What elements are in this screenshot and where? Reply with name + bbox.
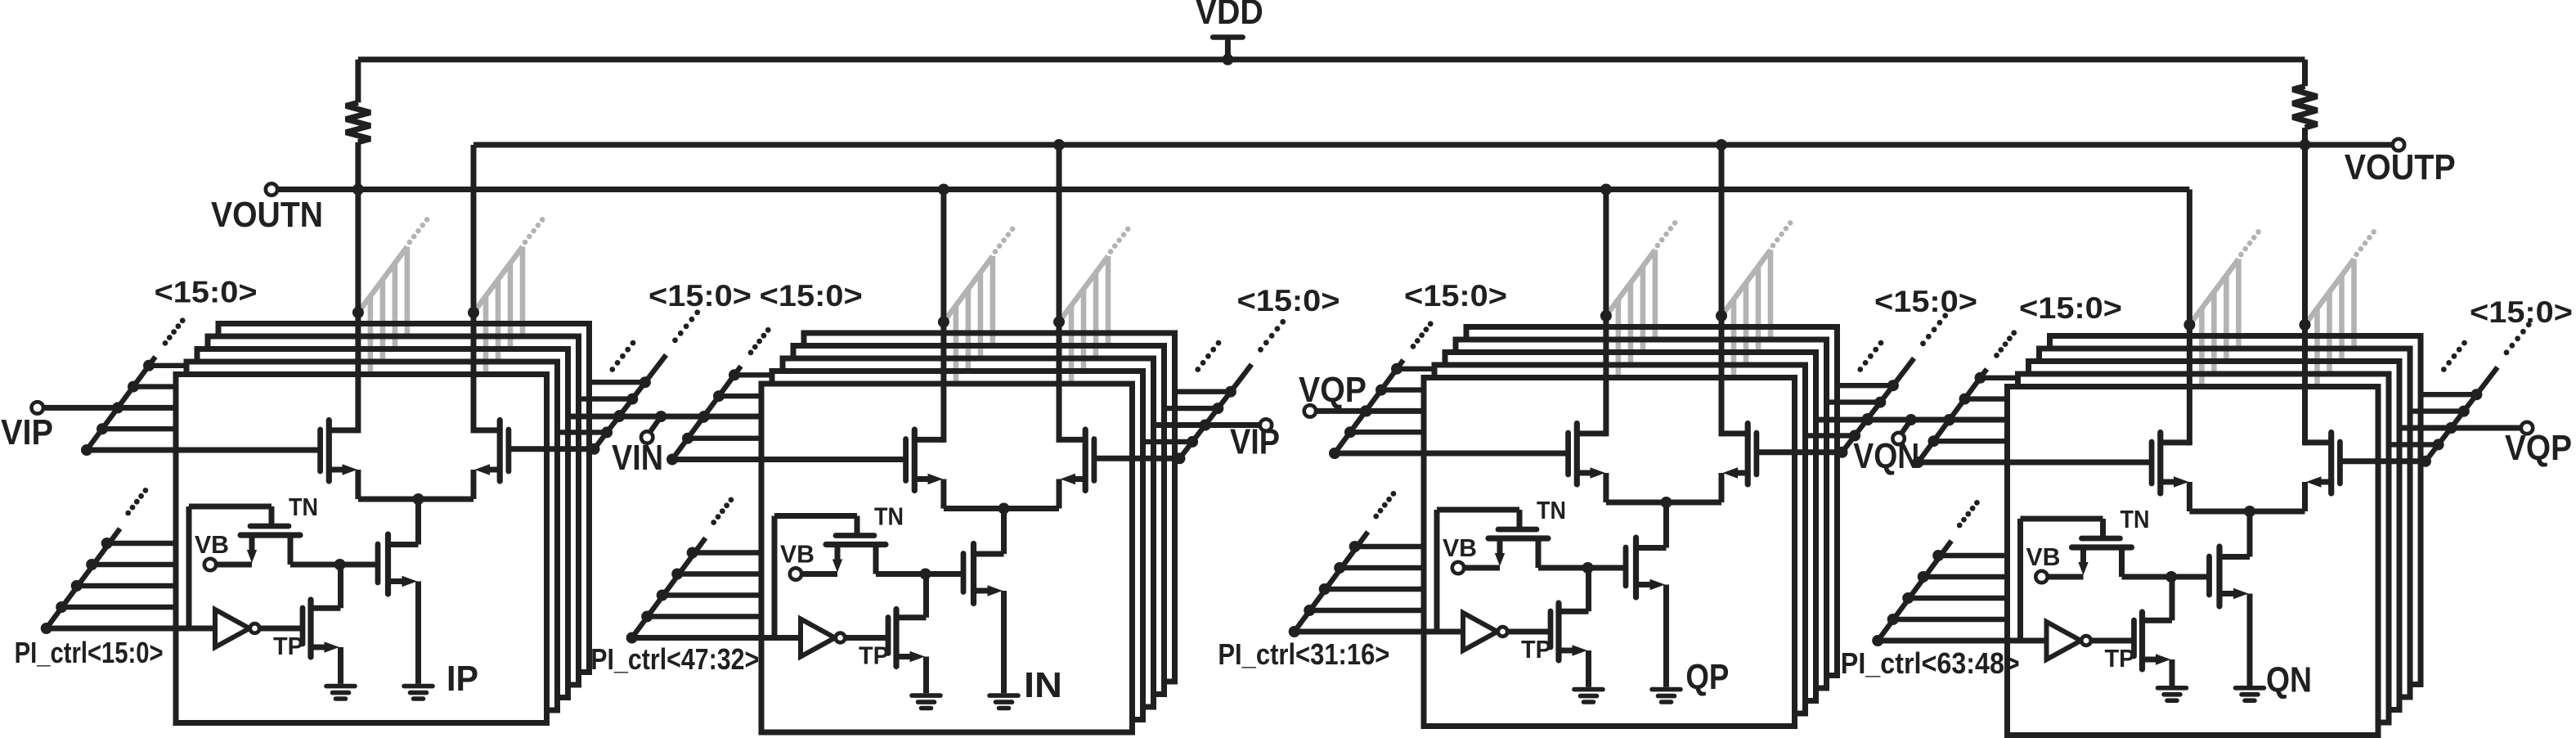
wire bias node [QN] <box>2122 574 2210 580</box>
svg-text:<15:0>: <15:0> <box>760 279 863 313</box>
transistor M1 (diff pair left) [QN] <box>2152 433 2189 512</box>
terminal VB [QN] <box>2035 571 2047 583</box>
terminal VOUTP <box>2393 139 2404 151</box>
label VB [QN] <box>2026 542 2061 571</box>
wire common source [QP] <box>1606 500 1721 506</box>
node slice-bus right QN <box>2300 319 2311 331</box>
input bus diagonal left of IP <box>81 317 186 456</box>
node slice-bus left IN <box>938 317 949 328</box>
label TN [QN] <box>2120 505 2150 533</box>
node VOUTN-R1 <box>352 184 364 196</box>
terminal VIP2 <box>1260 419 1272 430</box>
wire right gate line [QN] <box>2340 458 2426 464</box>
wire VIN stub <box>649 416 662 434</box>
node VQN-stub <box>1905 414 1917 425</box>
label VQP2 <box>2505 428 2572 468</box>
cell IP box top edges <box>176 324 592 375</box>
transistor TP [QN] <box>2134 577 2173 686</box>
transistor M2 (diff pair right) [QP] <box>1721 424 1757 503</box>
node VOUTP-IN <box>1053 139 1065 151</box>
label VOUTP <box>2345 147 2456 187</box>
cell QN slice stack (16 slices) <box>2008 336 2421 736</box>
label PI_ctrl<47:32> <box>590 642 759 676</box>
svg-text:VB: VB <box>2026 542 2061 571</box>
ellipsis dots (more slices) IP <box>609 340 635 372</box>
transistor M3 (tail current) [IN] <box>963 544 1004 694</box>
bus to slices (left drain) of IN <box>944 227 1015 384</box>
transistor TN [QP] <box>1437 510 1548 632</box>
bus to slices (left drain) of QN <box>2189 229 2261 386</box>
PI_ctrl bus diagonal of IP <box>41 488 176 634</box>
wire VB [QN] <box>2048 574 2084 580</box>
transistor TN [IN] <box>774 516 886 638</box>
node VQN-a <box>1862 414 1874 425</box>
svg-text:<15:0>: <15:0> <box>2470 295 2573 329</box>
input bus diagonal right of QP <box>1806 313 1949 457</box>
label bus left IP <box>155 275 258 308</box>
label PI_ctrl<63:48> <box>1841 646 2020 680</box>
svg-text:VB: VB <box>195 530 229 559</box>
svg-text:TP: TP <box>273 632 303 660</box>
transistor M1 (diff pair left) [IP] <box>321 421 358 500</box>
bus to slices (right drain) of QN <box>2305 229 2377 386</box>
svg-text:QN: QN <box>2266 660 2312 700</box>
ellipsis dots (more slices) QP <box>1857 340 1883 372</box>
wire bias node [IP] <box>290 562 378 568</box>
label IP [IP] <box>447 659 478 699</box>
transistor M3 (tail current) [IP] <box>378 534 419 684</box>
label TP [QP] <box>1521 635 1551 664</box>
input bus diagonal right of IP <box>558 309 701 454</box>
node common source [QN] <box>2244 506 2255 517</box>
label TN [IP] <box>289 493 318 521</box>
cell IN box top edges <box>761 333 1178 384</box>
ground TP [QP] <box>1574 690 1603 702</box>
node VIN-stub <box>655 411 666 422</box>
label VB [IN] <box>780 540 815 569</box>
PI_ctrl bus diagonal of QP <box>1289 491 1424 637</box>
input bus diagonal left of QN <box>1913 330 2018 468</box>
wire VQN <box>1816 417 2008 423</box>
wire common source [IP] <box>358 497 473 502</box>
node common source [QP] <box>1661 497 1672 508</box>
transistor M1 (diff pair left) [IN] <box>906 430 944 509</box>
input bus diagonal left of IN <box>666 327 772 466</box>
label VIP2 <box>1230 422 1280 462</box>
svg-text:PI_ctrl<15:0>: PI_ctrl<15:0> <box>15 636 164 669</box>
label TP [IP] <box>273 632 303 660</box>
ground tail [QN] <box>2236 688 2264 700</box>
label IN [IN] <box>1024 665 1062 705</box>
wire tail drain [QN] <box>2219 511 2250 557</box>
terminal VIP <box>32 402 43 413</box>
ground TP [IN] <box>912 695 940 708</box>
wire left gate line [IN] <box>672 457 906 462</box>
svg-text:IP: IP <box>447 659 478 699</box>
wire drain QP right <box>1719 145 1725 436</box>
node common source [IP] <box>413 493 424 505</box>
node slice-bus right IP <box>468 307 479 318</box>
wire VQN stub <box>1901 420 1911 435</box>
svg-text:<15:0>: <15:0> <box>1404 279 1507 313</box>
bus to slices (left drain) of QP <box>1606 220 1678 377</box>
inverter U1 [QN] <box>1878 622 2134 659</box>
label VB [QP] <box>1443 533 1477 562</box>
node slice-bus left QN <box>2183 319 2195 331</box>
label QP [QP] <box>1685 657 1729 697</box>
node VDD <box>1222 54 1233 65</box>
wire drain IP right <box>471 145 477 433</box>
ellipsis dots (more slices) QN <box>2441 340 2467 372</box>
svg-text:VOUTP: VOUTP <box>2345 147 2456 187</box>
node slice-bus right IN <box>1053 317 1065 328</box>
power VDD symbol <box>1213 38 1243 60</box>
label VIP <box>1 412 53 452</box>
label VOUTN <box>211 195 323 235</box>
node common source [IN] <box>999 503 1010 515</box>
wire drain QN right / R2 column <box>2302 60 2308 446</box>
inverter U1 [IN] <box>632 619 888 657</box>
node bias [QN] <box>2165 571 2177 583</box>
terminal VQP2 <box>2521 422 2533 434</box>
terminal VOUTN <box>266 183 277 195</box>
node bias [QP] <box>1582 562 1594 574</box>
svg-text:VIN: VIN <box>612 438 663 478</box>
terminal VB [QP] <box>1452 562 1464 574</box>
ground tail [IP] <box>404 686 433 699</box>
bus to slices (left drain) of IP <box>358 217 429 374</box>
ground tail [IN] <box>990 695 1018 708</box>
terminal VQN <box>1892 433 1904 444</box>
cell QN box top edges <box>2008 336 2424 387</box>
wire VIP <box>43 405 176 411</box>
wire left gate line [QN] <box>1919 460 2152 466</box>
transistor M2 (diff pair right) [QN] <box>2305 433 2340 512</box>
label PI_ctrl<31:16> <box>1218 637 1389 671</box>
wire VOUTP rail <box>473 142 2393 148</box>
node VIN-a <box>613 411 625 422</box>
ground tail [QP] <box>1652 690 1681 702</box>
svg-text:<15:0>: <15:0> <box>1237 284 1340 317</box>
bus to slices (right drain) of IP <box>473 217 545 374</box>
wire drain QP left <box>1603 190 1609 437</box>
label TN [QP] <box>1537 496 1566 524</box>
cell IP slice stack (16 slices) <box>176 324 590 723</box>
transistor TN [QN] <box>2021 519 2132 641</box>
wire common source [IN] <box>944 506 1059 511</box>
label VQP <box>1299 370 1367 410</box>
svg-text:TP: TP <box>2105 644 2135 673</box>
transistor M3 (tail current) [QP] <box>1626 538 1667 687</box>
input bus diagonal left of QP <box>1329 321 1434 459</box>
transistor M3 (tail current) [QN] <box>2210 547 2251 686</box>
node slice-bus right QP <box>1716 310 1727 322</box>
svg-text:VIP: VIP <box>1 412 53 452</box>
svg-text:VB: VB <box>780 540 815 569</box>
node VQP <box>1361 405 1372 416</box>
svg-text:TN: TN <box>289 493 318 521</box>
node VOUTN-QP <box>1600 184 1612 196</box>
svg-text:TN: TN <box>1537 496 1566 524</box>
node VOUTP-R2 <box>2300 139 2311 151</box>
PI_ctrl bus diagonal of IN <box>626 497 761 644</box>
inverter U1 [IP] <box>47 610 303 647</box>
cell QP slice stack (16 slices) <box>1424 327 1838 727</box>
transistor M2 (diff pair right) [IP] <box>473 421 509 500</box>
wire VQP <box>1316 408 1424 414</box>
label VQN <box>1853 436 1919 476</box>
svg-text:VQP: VQP <box>1299 370 1367 410</box>
node slice-bus left QP <box>1600 310 1612 322</box>
wire bias node [IN] <box>876 571 963 577</box>
svg-text:VQN: VQN <box>1853 436 1919 476</box>
terminal VB [IP] <box>204 559 216 570</box>
label bus right IP <box>648 279 752 313</box>
wire VB [IN] <box>801 571 837 577</box>
node VIP2 <box>1200 420 1211 431</box>
svg-text:<15:0>: <15:0> <box>1874 285 1977 318</box>
bus to slices (right drain) of IN <box>1059 227 1130 384</box>
wire left gate line [IP] <box>87 448 321 453</box>
node VOUTP-QP <box>1716 139 1727 151</box>
label VIN <box>612 438 663 478</box>
terminal VIN <box>641 431 653 443</box>
svg-text:TN: TN <box>2120 505 2150 533</box>
wire drain IP left / R1 column <box>355 60 361 434</box>
label QN [QN] <box>2266 660 2312 700</box>
node VOUTN-IN <box>938 184 949 196</box>
wire right gate line [IP] <box>509 446 595 452</box>
node bias [IP] <box>334 559 346 570</box>
svg-text:TN: TN <box>874 502 904 531</box>
terminal VB [IN] <box>790 568 801 579</box>
wire drain QN left <box>2187 190 2192 446</box>
label bus right QP <box>1874 285 1977 318</box>
wire bias node [QP] <box>1538 565 1626 571</box>
inverter U1 [QP] <box>1295 613 1551 650</box>
wire tail drain [IP] <box>388 499 419 545</box>
svg-text:<15:0>: <15:0> <box>2019 291 2122 325</box>
wire common source [QN] <box>2189 509 2304 515</box>
wire VB [IP] <box>216 562 252 568</box>
svg-text:VDD: VDD <box>1196 0 1263 32</box>
wire VIN <box>568 414 762 420</box>
wire right gate line [QP] <box>1757 449 1842 455</box>
label TP [QN] <box>2105 644 2135 673</box>
svg-text:VQP: VQP <box>2505 428 2572 468</box>
cell QP box top edges <box>1424 327 1840 378</box>
svg-text:VB: VB <box>1443 533 1477 562</box>
label bus left QN <box>2019 291 2122 325</box>
label PI_ctrl<15:0> <box>15 636 164 669</box>
svg-text:QP: QP <box>1685 657 1729 697</box>
wire left gate line [QP] <box>1335 451 1568 457</box>
svg-text:PI_ctrl<47:32>: PI_ctrl<47:32> <box>590 642 759 676</box>
resistor R2 <box>2293 86 2318 128</box>
label VB [IP] <box>195 530 229 559</box>
svg-text:TP: TP <box>859 641 889 670</box>
wire VIP2 <box>1154 422 1261 428</box>
label bus left QP <box>1404 279 1507 313</box>
wire tail drain [QP] <box>1636 502 1667 548</box>
wire drain IN right <box>1057 145 1062 443</box>
node VQN-b <box>1944 414 1955 425</box>
node VQP2 <box>2446 422 2457 434</box>
svg-text:VOUTN: VOUTN <box>211 195 323 235</box>
terminal VQP <box>1304 405 1316 416</box>
transistor TP [QP] <box>1551 568 1589 687</box>
wire right gate line [IN] <box>1094 456 1180 461</box>
transistor TP [IP] <box>303 565 341 684</box>
bus to slices (right drain) of QP <box>1721 220 1793 377</box>
transistor M2 (diff pair right) [IN] <box>1059 430 1094 509</box>
wire VB [QP] <box>1464 565 1500 571</box>
wire VDD rail <box>358 56 2305 62</box>
label VDD <box>1196 0 1263 32</box>
label bus right QN <box>2470 295 2573 329</box>
wire drain IN left <box>940 190 946 443</box>
wire VOUTN rail <box>277 187 2189 192</box>
svg-text:<15:0>: <15:0> <box>155 275 258 308</box>
node bias [IN] <box>920 569 931 580</box>
transistor TP [IN] <box>888 574 927 694</box>
svg-text:PI_ctrl<31:16>: PI_ctrl<31:16> <box>1218 637 1389 671</box>
label bus right IN <box>1237 284 1340 317</box>
node slice-bus left IP <box>352 307 364 318</box>
wire tail drain [IN] <box>974 509 1004 555</box>
svg-text:PI_ctrl<63:48>: PI_ctrl<63:48> <box>1841 646 2020 680</box>
ellipsis dots (more slices) IN <box>1195 340 1221 372</box>
svg-text:TP: TP <box>1521 635 1551 664</box>
svg-text:<15:0>: <15:0> <box>648 279 752 313</box>
input bus diagonal right of QN <box>2389 322 2532 466</box>
label TN [IN] <box>874 502 904 531</box>
cell IN slice stack (16 slices) <box>761 333 1175 732</box>
svg-text:VIP: VIP <box>1230 422 1280 462</box>
label TP [IN] <box>859 641 889 670</box>
wire VQP2 <box>2399 425 2521 431</box>
transistor M1 (diff pair left) [QP] <box>1568 424 1606 503</box>
transistor TN [IP] <box>189 506 300 628</box>
ground TP [QN] <box>2158 688 2187 700</box>
svg-text:IN: IN <box>1024 665 1062 705</box>
ground TP [IP] <box>326 686 355 699</box>
label bus left IN <box>760 279 863 313</box>
PI_ctrl bus diagonal of QN <box>1872 500 2007 646</box>
input bus diagonal right of IN <box>1143 319 1286 464</box>
node VIN-b <box>698 411 710 422</box>
resistor R1 <box>346 102 370 142</box>
